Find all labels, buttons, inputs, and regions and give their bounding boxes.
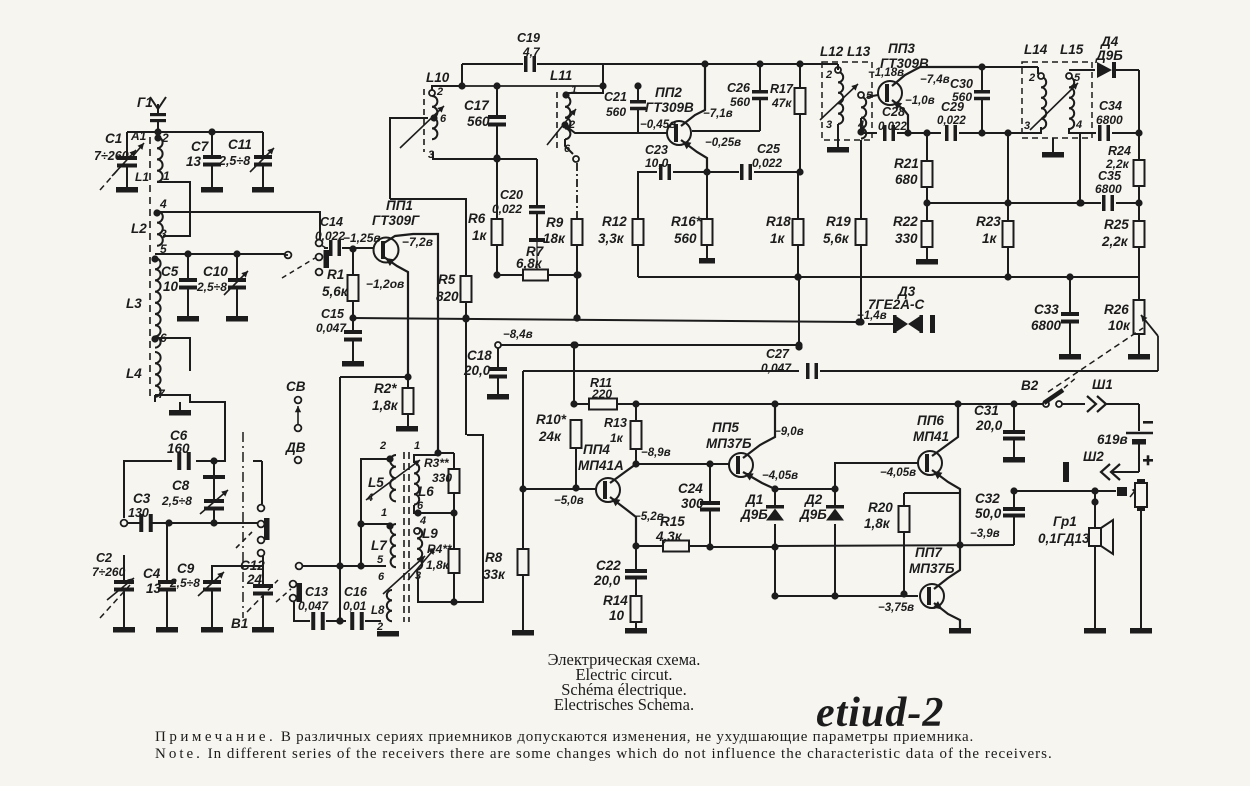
resistor R17 47к xyxy=(770,64,806,176)
svg-text:R21: R21 xyxy=(894,156,919,171)
svg-text:C22: C22 xyxy=(596,558,621,573)
svg-text:0,047: 0,047 xyxy=(761,361,792,375)
wire C16 to L8 xyxy=(373,620,381,622)
svg-text:560: 560 xyxy=(952,90,972,104)
wire y371 C27 xyxy=(0,0,1,1)
svg-text:1к: 1к xyxy=(472,228,488,243)
svg-text:6800: 6800 xyxy=(1095,182,1122,196)
band switch contacts B1 left xyxy=(236,505,270,557)
wire L8 top xyxy=(0,0,1,1)
svg-text:C13: C13 xyxy=(305,585,328,599)
ПП7 collector lead xyxy=(934,545,960,589)
AGC rail y318 xyxy=(353,314,857,322)
svg-text:−3,9в: −3,9в xyxy=(970,528,1000,540)
svg-text:5,6к: 5,6к xyxy=(823,231,850,246)
wire antenna top rail xyxy=(127,128,263,135)
ПП7 emitter lead xyxy=(933,601,971,633)
top rail y64 with C19 xyxy=(462,56,607,90)
headphone jack xyxy=(1117,479,1147,511)
svg-text:560: 560 xyxy=(467,114,490,129)
connector Ш2 xyxy=(1063,449,1139,482)
svg-text:ГТ309В: ГТ309В xyxy=(645,100,694,115)
svg-text:2,5÷8: 2,5÷8 xyxy=(161,494,192,508)
capacitor C10 2,5÷8 trimmer xyxy=(196,254,248,322)
coil L9 xyxy=(414,515,438,582)
capacitor C17 560 xyxy=(464,86,506,162)
svg-text:1: 1 xyxy=(163,169,170,183)
capacitor C27 label xyxy=(761,347,792,375)
capacitor C32 50,0 xyxy=(970,491,1025,545)
caption fr xyxy=(561,680,687,699)
svg-text:R5: R5 xyxy=(438,272,456,287)
resistor R11 220 horizontal xyxy=(589,376,617,410)
svg-text:C7: C7 xyxy=(191,139,210,154)
svg-text:R15: R15 xyxy=(660,514,685,529)
svg-text:−9,0в: −9,0в xyxy=(774,426,804,438)
transistor ПП4 МП41А xyxy=(578,442,624,502)
capacitor C24 300 xyxy=(678,464,720,551)
svg-text:619в: 619в xyxy=(1097,432,1128,447)
wire L7 pin5-6 xyxy=(0,0,1,1)
label -0,25в xyxy=(705,137,741,149)
coil L7 xyxy=(371,522,396,567)
coil L8 xyxy=(371,571,392,633)
svg-text:33к: 33к xyxy=(483,567,506,582)
svg-text:Гр1: Гр1 xyxy=(1053,514,1077,529)
svg-text:300: 300 xyxy=(681,496,704,511)
svg-text:R25: R25 xyxy=(1104,217,1129,232)
label -1,18в xyxy=(868,67,904,79)
wire R5 to IF box xyxy=(462,314,469,435)
switch В2 xyxy=(1021,377,1077,407)
svg-text:C26: C26 xyxy=(727,81,751,95)
svg-text:4: 4 xyxy=(1075,119,1082,131)
svg-text:1: 1 xyxy=(571,84,577,96)
svg-text:R4**: R4** xyxy=(427,542,453,556)
svg-text:2: 2 xyxy=(436,86,443,98)
capacitor C29 label xyxy=(937,100,966,127)
svg-text:C21: C21 xyxy=(604,90,627,104)
switch contacts at C14 xyxy=(282,240,329,278)
resistor R16* 560 xyxy=(671,172,715,264)
svg-text:2,2к: 2,2к xyxy=(1101,234,1129,249)
wire rail continues to ПП2 xyxy=(603,60,824,67)
capacitor C2 7÷260 variable xyxy=(92,551,135,633)
svg-text:−4,05в: −4,05в xyxy=(880,467,916,479)
resistor R10* 24к xyxy=(536,412,582,492)
svg-text:L1: L1 xyxy=(135,170,149,184)
wire osc tank stub xyxy=(284,254,288,256)
svg-text:6: 6 xyxy=(160,331,167,345)
capacitor C33 6800 xyxy=(1031,277,1081,360)
arrow L14 tuning xyxy=(1030,83,1078,130)
svg-text:В2: В2 xyxy=(1021,378,1039,393)
svg-text:L9: L9 xyxy=(422,526,438,541)
svg-text:20,0: 20,0 xyxy=(593,573,621,588)
wire L10 tap to ПП1 xyxy=(390,118,428,199)
label -5,0в xyxy=(554,495,584,507)
resistor R23 1к xyxy=(976,133,1014,281)
svg-text:2: 2 xyxy=(825,69,832,81)
svg-text:330: 330 xyxy=(895,231,918,246)
svg-text:1: 1 xyxy=(414,440,420,452)
wire y404 left end xyxy=(570,341,577,404)
note line 1 xyxy=(155,729,974,745)
wire rail to L12 xyxy=(827,124,849,153)
wire L14 pin3 xyxy=(1022,127,1041,133)
ПП3 base lead xyxy=(867,95,878,97)
label -4,05в xyxy=(762,470,798,482)
dashed link В2 to R26 xyxy=(1048,328,1143,392)
resistor R1 5,6к xyxy=(322,252,359,317)
svg-text:Д9Б: Д9Б xyxy=(799,507,827,522)
svg-text:ПП4: ПП4 xyxy=(583,442,610,457)
capacitor C4 13 xyxy=(143,523,178,633)
label -7,4в xyxy=(920,74,950,86)
svg-text:L11: L11 xyxy=(550,68,572,83)
svg-text:−8,9в: −8,9в xyxy=(641,447,671,459)
coil L1 xyxy=(135,131,170,184)
svg-text:R20: R20 xyxy=(868,500,893,515)
switch contact pair B1 right xyxy=(276,581,302,602)
svg-text:2: 2 xyxy=(379,440,386,452)
transistor ПП1 ГТ309Г xyxy=(372,198,420,263)
capacitor C19 4,7 label xyxy=(517,31,541,59)
svg-text:1,8к: 1,8к xyxy=(372,398,399,413)
transistor ПП2 ГТ309В xyxy=(645,85,694,145)
arrow L12 tuning xyxy=(820,84,858,120)
svg-text:L14: L14 xyxy=(1024,42,1048,57)
svg-text:МП37Б: МП37Б xyxy=(909,561,955,576)
svg-text:2: 2 xyxy=(1028,72,1035,84)
capacitor C23 label xyxy=(645,143,669,170)
ПП6 emitter lead xyxy=(932,470,964,549)
capacitor C8 2,5÷8 trimmer xyxy=(161,457,228,523)
label -1,2в xyxy=(366,277,404,291)
wire rail to L14 xyxy=(982,67,1038,74)
svg-text:C33: C33 xyxy=(1034,302,1059,317)
wire L13 pin4 down xyxy=(857,118,864,136)
svg-text:C18: C18 xyxy=(467,348,492,363)
capacitor C35 6800 series xyxy=(1095,169,1143,211)
capacitor C5 10 xyxy=(161,254,199,322)
svg-text:6: 6 xyxy=(378,571,385,583)
svg-text:C4: C4 xyxy=(143,566,161,581)
wire R8 top xyxy=(523,363,1158,489)
svg-text:R14: R14 xyxy=(603,593,628,608)
svg-text:2,5÷8: 2,5÷8 xyxy=(218,154,250,168)
svg-text:−7,4в: −7,4в xyxy=(920,74,950,86)
label -7,1в xyxy=(703,108,733,120)
svg-text:R23: R23 xyxy=(976,214,1001,229)
wire L7 pin1 xyxy=(361,523,390,525)
svg-text:R24: R24 xyxy=(1108,144,1131,158)
ПП5 collector lead xyxy=(743,404,775,458)
capacitor C30 560 xyxy=(950,67,990,133)
resistor R21 680 xyxy=(894,133,933,207)
svg-text:ПП7: ПП7 xyxy=(915,545,943,560)
label -1,25в xyxy=(343,231,381,245)
svg-text:C19: C19 xyxy=(517,31,540,45)
arrow L8 tuning xyxy=(383,556,425,594)
dashed gang diagonal B1 xyxy=(247,580,278,612)
coil L14 xyxy=(1024,72,1046,132)
ПП4 base wire xyxy=(519,485,596,492)
svg-text:0,022: 0,022 xyxy=(315,229,345,243)
svg-text:МП41А: МП41А xyxy=(578,458,624,473)
capacitor C12 24 xyxy=(240,553,274,633)
wire dash-dot L11 pin6 to R9 xyxy=(576,163,578,219)
svg-text:7÷260: 7÷260 xyxy=(94,149,129,163)
svg-text:C12: C12 xyxy=(240,558,265,573)
vertical wire from R2 node xyxy=(336,377,343,625)
svg-text:C5: C5 xyxy=(161,264,179,279)
node C3 wire left xyxy=(121,520,128,527)
svg-text:R22: R22 xyxy=(893,214,918,229)
svg-text:50,0: 50,0 xyxy=(975,506,1002,521)
wire y545 from R15 xyxy=(0,0,1,1)
svg-text:R26: R26 xyxy=(1104,302,1129,317)
wire output to jack xyxy=(1010,487,1116,494)
svg-text:20,0: 20,0 xyxy=(463,363,491,378)
svg-text:C8: C8 xyxy=(172,478,190,493)
svg-text:C30: C30 xyxy=(950,77,973,91)
svg-text:1,8к: 1,8к xyxy=(426,558,450,572)
svg-text:0,1ГД13: 0,1ГД13 xyxy=(1038,531,1090,546)
transistor ПП7 МП37Б xyxy=(909,545,955,608)
resistor R9 18к xyxy=(543,215,583,322)
svg-text:L13: L13 xyxy=(847,44,871,59)
svg-text:160: 160 xyxy=(167,441,190,456)
svg-text:10: 10 xyxy=(609,608,625,623)
svg-text:6: 6 xyxy=(564,143,571,155)
svg-text:47к: 47к xyxy=(771,96,792,110)
resistor R8 33к xyxy=(483,489,534,636)
label -9,0в xyxy=(774,426,804,438)
label -8,9в xyxy=(641,447,671,459)
svg-text:ДВ: ДВ xyxy=(285,440,306,455)
resistor R24 2,2к xyxy=(1105,133,1145,203)
resistor R13 1к xyxy=(604,404,642,468)
caption de xyxy=(554,695,694,714)
svg-text:C14: C14 xyxy=(320,215,343,229)
label -4,05в right xyxy=(880,467,916,479)
diode Д4 Д9Б xyxy=(1069,34,1139,78)
switch CB ДВ arrow xyxy=(285,379,306,463)
svg-text:10: 10 xyxy=(163,279,179,294)
wire base rail y489 xyxy=(775,485,839,492)
svg-text:R1: R1 xyxy=(327,267,344,282)
svg-text:МП37Б: МП37Б xyxy=(706,436,752,451)
wire C6 right to contact xyxy=(253,461,262,504)
svg-text:13: 13 xyxy=(146,581,162,596)
wire L11 pin1 to rail xyxy=(566,86,603,93)
coil L11 variable xyxy=(547,68,579,162)
node open circle CB wire xyxy=(296,563,303,570)
svg-text:R16*: R16* xyxy=(671,214,702,229)
svg-text:C35: C35 xyxy=(1098,169,1122,183)
wire L15 pin4 to y203 xyxy=(1076,133,1083,207)
svg-text:C24: C24 xyxy=(678,481,703,496)
label -1,0в xyxy=(905,95,935,107)
capacitor C31 20,0 xyxy=(974,403,1025,463)
speaker Гр1 0,1ГД13 xyxy=(1038,491,1113,634)
svg-text:130: 130 xyxy=(128,506,149,520)
coil L12 xyxy=(824,64,843,131)
coil L15 xyxy=(1066,72,1082,131)
svg-text:2,5÷8: 2,5÷8 xyxy=(196,280,227,294)
svg-text:0,047: 0,047 xyxy=(298,599,329,613)
label -3,75в xyxy=(878,602,914,614)
wire to C14 xyxy=(157,212,320,239)
svg-text:L6: L6 xyxy=(418,484,434,499)
svg-text:20,0: 20,0 xyxy=(975,418,1003,433)
resistor R19 5,6к xyxy=(823,140,867,326)
coil L2 xyxy=(131,197,167,246)
capacitor C13 0,047 series xyxy=(298,585,346,630)
svg-text:L8: L8 xyxy=(371,605,385,617)
svg-text:4,3к: 4,3к xyxy=(655,529,683,544)
svg-text:C23: C23 xyxy=(645,143,668,157)
svg-text:Примечание. В различных серия: Примечание. В различных сериях приемнико… xyxy=(155,729,974,745)
capacitor C3 130 series xyxy=(128,491,262,532)
svg-text:R19: R19 xyxy=(826,214,851,229)
svg-text:L10: L10 xyxy=(426,70,450,85)
wire L6 pin1 xyxy=(414,455,438,463)
resistor R22 330 xyxy=(893,203,938,265)
capacitor C28 label xyxy=(878,105,907,133)
supply rail y404 xyxy=(570,400,1043,407)
wire ПП7 base rail xyxy=(775,595,918,597)
transformer L12 L13 box xyxy=(820,44,872,140)
svg-text:6800: 6800 xyxy=(1096,113,1123,127)
svg-text:0,01: 0,01 xyxy=(343,599,367,613)
svg-text:L3: L3 xyxy=(126,296,142,311)
ПП4 emitter lead xyxy=(610,497,640,550)
svg-text:4,7: 4,7 xyxy=(522,45,541,59)
wire transformer ground xyxy=(1042,138,1064,158)
svg-text:R8: R8 xyxy=(485,550,503,565)
wire L10 top to rail xyxy=(432,64,466,90)
capacitor C20 0,022 xyxy=(492,159,545,270)
svg-text:24: 24 xyxy=(246,572,263,587)
svg-text:10,0: 10,0 xyxy=(645,156,669,170)
svg-text:R12: R12 xyxy=(602,214,627,229)
svg-text:C17: C17 xyxy=(464,98,490,113)
svg-text:Note. In different series of: Note. In different series of the receive… xyxy=(155,746,1053,762)
wire ПП1 emitter to R2 xyxy=(340,373,412,380)
wire L3 top rail xyxy=(155,250,284,257)
svg-text:2: 2 xyxy=(161,131,169,145)
wire L7 to L8 xyxy=(0,0,1,1)
battery 619в xyxy=(1097,404,1153,472)
wire CB to IF transformer xyxy=(302,562,386,569)
ПП2 collector lead xyxy=(681,64,705,126)
svg-text:3: 3 xyxy=(1024,120,1030,132)
wire switch to C13 xyxy=(294,602,306,621)
capacitor C14 0,022 series xyxy=(315,215,374,256)
coil L6 xyxy=(414,440,442,512)
wire x799 junction xyxy=(795,341,802,348)
svg-text:1: 1 xyxy=(381,507,387,519)
svg-text:ПП1: ПП1 xyxy=(386,198,413,213)
label -5,2в xyxy=(634,511,664,523)
wire Д1 to ПП7 base rail xyxy=(771,547,778,600)
potentiometer R26 10к xyxy=(1104,277,1158,371)
svg-text:Д9Б: Д9Б xyxy=(740,507,768,522)
svg-text:−1,0в: −1,0в xyxy=(905,95,935,107)
svg-text:R2*: R2* xyxy=(374,381,397,396)
svg-text:−4,05в: −4,05в xyxy=(762,470,798,482)
svg-text:1,8к: 1,8к xyxy=(864,516,891,531)
svg-text:МП41: МП41 xyxy=(913,429,949,444)
svg-text:220: 220 xyxy=(591,387,612,401)
resistor R4** 1,8к xyxy=(426,513,460,606)
resistor R18 1к xyxy=(766,172,804,281)
svg-text:4: 4 xyxy=(159,197,167,211)
dashed gang diagonal C2 xyxy=(100,585,130,618)
logo etiud-2 xyxy=(816,690,944,736)
svg-text:Electrisches Schema.: Electrisches Schema. xyxy=(554,695,694,714)
connector Ш1 xyxy=(1062,377,1139,412)
capacitor C15 0,047 xyxy=(316,307,364,367)
svg-text:Д1: Д1 xyxy=(745,492,763,507)
wire ПП6 base xyxy=(835,463,918,489)
svg-text:−1,2ов: −1,2ов xyxy=(366,277,404,291)
note line 2 xyxy=(155,746,1053,762)
capacitor C26 560 xyxy=(692,64,768,131)
coil L5 xyxy=(366,440,396,519)
svg-text:C15: C15 xyxy=(321,307,345,321)
IF wire y133 xyxy=(861,125,1022,141)
svg-text:C16: C16 xyxy=(344,585,368,599)
wire jack down xyxy=(1130,511,1152,634)
label -0,45в xyxy=(640,119,676,131)
svg-text:−0,25в: −0,25в xyxy=(705,137,741,149)
svg-text:7ГЕ2А-С: 7ГЕ2А-С xyxy=(868,297,925,312)
svg-text:0,022: 0,022 xyxy=(937,115,966,127)
capacitor C25 label xyxy=(752,142,782,170)
capacitor C18 20,0 xyxy=(463,348,509,400)
diode Д3 7ГЕ2А-С xyxy=(868,284,935,333)
svg-text:−7,2в: −7,2в xyxy=(402,235,433,249)
svg-text:Д9Б: Д9Б xyxy=(1095,48,1123,63)
resistor R2* 1,8к xyxy=(372,377,418,432)
ПП3 emitter lead xyxy=(892,100,912,137)
svg-text:2,5÷8: 2,5÷8 xyxy=(169,576,200,590)
ПП6 collector lead xyxy=(932,404,958,456)
resistor R15 4,3к horizontal xyxy=(636,514,710,552)
svg-text:820: 820 xyxy=(436,289,459,304)
wire C9 top xyxy=(212,566,263,580)
svg-text:−3,75в: −3,75в xyxy=(878,602,914,614)
arrow L9 tuning xyxy=(408,548,435,580)
svg-text:C34: C34 xyxy=(1099,99,1122,113)
diode Д2 Д9Б xyxy=(799,489,844,600)
svg-text:5: 5 xyxy=(377,554,384,566)
antenna Г1 xyxy=(137,95,166,132)
svg-text:ПП6: ПП6 xyxy=(917,413,944,428)
svg-text:СВ: СВ xyxy=(286,379,306,394)
wire L1 to L2 bottom xyxy=(157,182,190,236)
svg-text:С31: С31 xyxy=(974,403,999,418)
svg-text:1к: 1к xyxy=(982,231,998,246)
transistor ПП6 МП41 xyxy=(913,413,949,475)
svg-text:24к: 24к xyxy=(538,429,562,444)
svg-text:C27: C27 xyxy=(766,347,790,361)
capacitor C7 13 xyxy=(186,132,223,193)
wire L3 to L4 xyxy=(151,335,190,371)
